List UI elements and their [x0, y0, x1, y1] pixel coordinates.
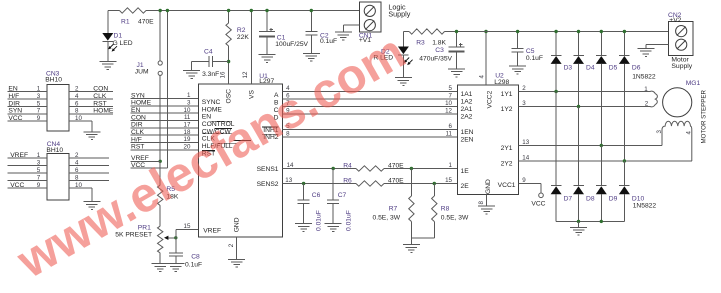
U2 pin name 2Y2	[501, 161, 513, 168]
wire D6 to output	[623, 64, 625, 161]
svg-text:D1: D1	[114, 33, 123, 40]
node output col D6	[623, 159, 626, 162]
svg-text:L298: L298	[494, 79, 509, 86]
svg-text:EN: EN	[131, 107, 140, 114]
svg-text:0.1uF: 0.1uF	[526, 55, 543, 62]
resistor R6	[343, 178, 404, 187]
wire C4 to ground	[192, 62, 210, 71]
svg-text:7: 7	[37, 108, 41, 115]
wire CN1 pin 2 to ground	[343, 25, 359, 32]
svg-text:+V2: +V2	[669, 17, 681, 24]
wire rail to C1	[265, 9, 268, 32]
U1 pin name INH2	[262, 134, 279, 141]
svg-text:0.5E, 3W: 0.5E, 3W	[373, 215, 401, 222]
ground below U1	[228, 259, 245, 267]
wire SENS2 left	[283, 177, 357, 184]
ground below D1	[99, 62, 116, 70]
svg-text:HOME: HOME	[131, 100, 152, 107]
diode D5	[596, 55, 618, 71]
svg-text:10: 10	[75, 115, 82, 122]
ground below diodes	[570, 227, 587, 235]
svg-text:2Y1: 2Y1	[501, 145, 513, 152]
wire OSC node to C4	[212, 61, 228, 63]
wire INH2 net	[283, 130, 458, 137]
wire U2 VCC1 to VCC	[519, 177, 542, 193]
svg-text:1: 1	[187, 92, 191, 99]
U2 VCC2 label	[487, 90, 494, 108]
wires input net stubs SYN HOME EN CON DIR CLK H/F RST	[131, 92, 199, 150]
svg-text:8: 8	[75, 108, 79, 115]
svg-text:EN: EN	[202, 114, 211, 121]
U2 pin name 1A2	[461, 99, 473, 106]
VCC label	[531, 200, 545, 207]
svg-text:11: 11	[184, 114, 191, 121]
U1 pin name VREF	[203, 228, 221, 235]
connector CN1 body	[359, 2, 381, 44]
wire C8 to ground	[175, 256, 177, 264]
ground below R7 R8	[403, 245, 420, 253]
svg-text:3: 3	[37, 93, 41, 100]
wire SENS1 left	[283, 162, 357, 169]
svg-text:D4: D4	[586, 64, 595, 71]
ground below C3	[448, 69, 465, 77]
svg-text:SYN: SYN	[131, 92, 145, 99]
wire C7 top	[332, 169, 334, 201]
diode D3	[551, 55, 573, 71]
label 1N5822 bottom	[633, 203, 657, 210]
wire SENS1 right	[384, 162, 458, 169]
svg-text:CON: CON	[131, 114, 146, 121]
U2 pin name 2E	[461, 183, 470, 190]
wire D2 cathode	[402, 55, 404, 77]
svg-text:R7: R7	[389, 206, 398, 213]
svg-text:D10: D10	[632, 195, 645, 202]
diode D10	[619, 186, 645, 203]
diode D9	[596, 186, 618, 203]
svg-text:2: 2	[228, 243, 235, 247]
svg-text:16: 16	[220, 71, 227, 78]
svg-text:R4: R4	[343, 163, 352, 170]
svg-text:VS: VS	[249, 90, 256, 99]
U2 pin name 1Y2	[501, 106, 513, 113]
svg-text:Supply: Supply	[671, 63, 692, 70]
wire C7 bottom	[332, 203, 334, 223]
diode D7	[551, 186, 573, 203]
label MOTOR STEPPER	[701, 89, 708, 143]
wire D7 to bottom rail	[555, 194, 557, 221]
svg-text:10: 10	[445, 100, 452, 107]
svg-text:5: 5	[449, 85, 453, 92]
svg-text:D3: D3	[564, 64, 573, 71]
wire INH1 net	[283, 123, 458, 130]
svg-text:H/F: H/F	[131, 136, 142, 143]
U2 pin name VCC1	[498, 182, 516, 189]
capacitor C4	[202, 48, 219, 77]
svg-text:SYNC: SYNC	[202, 99, 221, 106]
svg-text:C5: C5	[526, 48, 535, 55]
U2 pin name 2EN	[461, 137, 474, 144]
wire D2 anode	[402, 32, 404, 47]
diode D4	[573, 55, 595, 71]
svg-text:17: 17	[184, 122, 191, 129]
wire VCC logic rail	[108, 10, 360, 12]
diode D6	[619, 55, 641, 71]
resistor R8	[432, 196, 469, 222]
svg-text:1N5822: 1N5822	[632, 73, 656, 80]
ground below C8	[167, 264, 184, 272]
svg-text:1Y2: 1Y2	[501, 106, 513, 113]
resistor R4	[343, 163, 404, 172]
U1 pin name B	[274, 100, 279, 107]
svg-text:470E: 470E	[138, 19, 154, 26]
svg-text:C3: C3	[435, 47, 444, 54]
svg-text:C8: C8	[191, 254, 200, 261]
U1 pin name SENS1	[257, 166, 279, 173]
svg-text:0.1uF: 0.1uF	[320, 38, 337, 45]
wire output to D9	[600, 146, 602, 186]
ground below C6	[295, 224, 312, 232]
capacitor C8	[169, 253, 202, 269]
svg-text:CLK: CLK	[93, 93, 107, 100]
wire C3 bottom	[456, 52, 458, 69]
svg-text:DIR: DIR	[131, 122, 143, 129]
svg-text:VREF: VREF	[10, 152, 28, 159]
svg-text:3: 3	[187, 100, 191, 107]
svg-text:EN: EN	[8, 86, 17, 93]
U1 VS label	[249, 90, 256, 99]
svg-text:2: 2	[75, 152, 79, 159]
ground below C5	[509, 66, 526, 74]
U1 pin name D	[274, 115, 279, 122]
wire D3 to output	[555, 64, 557, 92]
U2 pin name 1A1	[461, 91, 473, 98]
wire U2 GND pin 8	[478, 194, 487, 206]
svg-text:R6: R6	[343, 178, 352, 185]
resistor R5	[158, 185, 179, 206]
U1 GND label	[234, 217, 241, 232]
svg-text:8: 8	[75, 175, 79, 182]
svg-text:15: 15	[445, 177, 452, 184]
inductor motor winding A	[644, 86, 657, 108]
resistor R1	[120, 8, 155, 26]
svg-text:VCC2: VCC2	[487, 90, 494, 108]
ground below CN3 pin 10	[83, 132, 100, 140]
svg-text:R2: R2	[237, 27, 246, 34]
capacitor C5	[512, 48, 543, 62]
wire J1 to VREF node	[159, 75, 161, 161]
wire 2Y1 to motor	[519, 139, 663, 146]
svg-text:13: 13	[285, 177, 292, 184]
svg-text:G LED: G LED	[113, 40, 133, 47]
wire join to ground	[410, 238, 412, 244]
svg-text:VREF: VREF	[203, 228, 221, 235]
wire wiper to C8	[175, 238, 177, 253]
svg-text:14: 14	[522, 155, 529, 162]
svg-text:1E: 1E	[461, 168, 470, 175]
wire D1 anode	[107, 11, 109, 34]
wire C6 bottom	[303, 203, 305, 223]
ground below C7	[325, 224, 342, 232]
svg-text:CON: CON	[93, 86, 108, 93]
wires CN4 left pins	[7, 152, 46, 189]
U1 pin name A	[274, 92, 279, 99]
svg-text:2Y2: 2Y2	[501, 161, 513, 168]
wire D8 to bottom rail	[578, 194, 580, 221]
label 1N5822 top	[632, 73, 656, 80]
ground below U2	[478, 206, 495, 214]
svg-text:RST: RST	[93, 100, 106, 107]
ground below CN4 pin 10	[83, 202, 100, 210]
svg-text:3: 3	[522, 100, 526, 107]
wire rail to VCC net	[166, 9, 169, 168]
wire D4 to output	[578, 64, 580, 107]
ground below C4	[183, 71, 200, 79]
svg-text:0.1uF: 0.1uF	[185, 262, 202, 269]
wire U1 OSC pin 16	[220, 62, 229, 85]
svg-text:C6: C6	[312, 192, 321, 199]
node VCC2 rail tap	[484, 30, 487, 33]
motor MG1 body	[663, 80, 701, 117]
ground below PR1	[152, 264, 169, 272]
svg-text:VCC1: VCC1	[498, 182, 516, 189]
node SENS1 R7 tap	[410, 167, 413, 170]
svg-text:1: 1	[449, 162, 453, 169]
svg-text:BH10: BH10	[46, 147, 63, 154]
svg-text:DIR: DIR	[8, 100, 20, 107]
svg-text:1A1: 1A1	[461, 91, 473, 98]
svg-text:D9: D9	[609, 195, 618, 202]
svg-text:D6: D6	[632, 64, 641, 71]
svg-text:0.01uF: 0.01uF	[346, 210, 353, 231]
svg-text:BH10: BH10	[45, 77, 62, 84]
connector CN4 body	[46, 141, 68, 200]
node VREF junction	[159, 160, 162, 163]
wire phase D	[283, 108, 458, 115]
svg-text:SYN: SYN	[8, 108, 22, 115]
svg-text:Supply: Supply	[388, 10, 410, 19]
jumper J1	[135, 61, 162, 76]
label Logic Supply	[388, 2, 410, 18]
svg-text:1Y1: 1Y1	[501, 91, 513, 98]
wire net VREF stub	[131, 155, 161, 162]
svg-text:D8: D8	[586, 195, 595, 202]
svg-text:2E: 2E	[461, 183, 470, 190]
wires CN3 left pins	[7, 86, 46, 123]
svg-text:15: 15	[184, 223, 191, 230]
svg-text:HOME: HOME	[93, 108, 114, 115]
resistor R7	[373, 196, 415, 222]
ground below C2	[303, 53, 320, 61]
svg-text:470uF/35V: 470uF/35V	[419, 56, 452, 63]
svg-text:3: 3	[656, 130, 663, 134]
U2 pin name 2A1	[461, 106, 473, 113]
wire SENS2 right	[384, 177, 458, 184]
node SENS1 C7 tap	[332, 167, 335, 170]
ground below CN1	[335, 32, 352, 40]
svg-text:9: 9	[522, 177, 526, 184]
node output col D5	[600, 144, 603, 147]
svg-text:1: 1	[37, 86, 41, 93]
svg-text:13: 13	[522, 139, 529, 146]
svg-text:VCC: VCC	[531, 200, 545, 207]
svg-text:2A1: 2A1	[461, 106, 473, 113]
wire rail to R2	[227, 9, 230, 23]
node PR1 wiper	[174, 236, 177, 239]
watermark	[8, 25, 415, 289]
svg-text:SENS1: SENS1	[257, 166, 279, 173]
svg-text:GND: GND	[234, 217, 241, 232]
svg-text:0.01uF: 0.01uF	[316, 210, 323, 231]
svg-text:GND: GND	[485, 179, 492, 194]
capacitor C2	[305, 31, 337, 44]
svg-text:4: 4	[686, 131, 693, 135]
ground below C1	[259, 55, 276, 63]
U1 pin name INH1	[262, 127, 279, 134]
svg-text:2EN: 2EN	[461, 137, 474, 144]
svg-text:1A2: 1A2	[461, 99, 473, 106]
wire output to D8	[578, 107, 580, 186]
wire R7 R8 join	[411, 222, 434, 239]
wire 1Y2 to motor	[519, 100, 645, 107]
U2 pin name 1E	[461, 168, 470, 175]
U2 GND label	[485, 179, 492, 194]
svg-text:1N5822: 1N5822	[633, 203, 657, 210]
svg-text:MG1: MG1	[686, 80, 701, 87]
wire phase B	[283, 93, 458, 100]
diode D8	[573, 186, 595, 203]
ground below CN2	[637, 48, 654, 56]
svg-text:0.5E, 3W: 0.5E, 3W	[441, 215, 469, 222]
svg-text:5: 5	[37, 100, 41, 107]
svg-text:1: 1	[37, 152, 41, 159]
svg-text:2A2: 2A2	[461, 114, 473, 121]
label Motor Supply	[671, 57, 692, 70]
wire wiper to U1 pin 15	[176, 230, 199, 238]
node output col D4	[577, 105, 580, 108]
svg-text:R1: R1	[121, 19, 130, 26]
svg-text:C7: C7	[338, 192, 347, 199]
svg-text:VCC: VCC	[10, 182, 24, 189]
svg-text:6: 6	[449, 123, 453, 130]
node VCC terminal	[539, 193, 544, 198]
wire C2 to ground	[310, 35, 312, 54]
LED D2	[373, 47, 412, 66]
wire rail to C2	[310, 9, 313, 32]
svg-text:HOME: HOME	[202, 107, 223, 114]
wire +V2 rail	[403, 31, 668, 33]
U2 pin name 2Y1	[501, 145, 513, 152]
wires CN4 right pins	[69, 152, 109, 182]
U1 pin name C	[274, 107, 279, 114]
wire C1 to ground	[266, 37, 268, 55]
wire D10 to bottom rail	[623, 194, 625, 221]
op U1 body	[199, 73, 283, 237]
svg-text:11: 11	[446, 130, 453, 137]
svg-text:D5: D5	[609, 64, 618, 71]
wire phase C	[283, 100, 458, 107]
wire 1Y1 to motor	[519, 85, 645, 92]
svg-text:R8: R8	[441, 206, 450, 213]
svg-text:9: 9	[37, 115, 41, 122]
wire VREF node to R5	[159, 161, 161, 185]
svg-text:4: 4	[75, 160, 79, 167]
connector CN2 body	[668, 12, 693, 55]
wire diode bottom rail	[556, 220, 624, 223]
wire U1 GND pin 2	[228, 237, 237, 259]
wire rail to D5	[600, 30, 603, 56]
node SENS2 C6 tap	[302, 182, 305, 185]
svg-text:MOTOR STEPPER: MOTOR STEPPER	[701, 89, 708, 143]
wire R5 to PR1	[159, 206, 161, 227]
svg-text:2: 2	[522, 85, 526, 92]
ground below D2	[395, 78, 412, 86]
svg-text:SENS2: SENS2	[257, 181, 279, 188]
svg-text:3: 3	[37, 160, 41, 167]
op U2 body	[458, 72, 519, 194]
wire rail to D3	[554, 30, 557, 56]
svg-text:7: 7	[37, 175, 41, 182]
node output col D3	[554, 90, 557, 93]
wire R7 top	[410, 169, 412, 197]
U1 pin 15 number	[184, 223, 191, 230]
svg-text:CLK: CLK	[131, 129, 145, 136]
svg-text:C4: C4	[204, 48, 213, 55]
U1 left pin names	[184, 92, 252, 157]
LED D1	[102, 33, 132, 52]
svg-text:10: 10	[184, 107, 191, 114]
svg-text:12: 12	[445, 108, 452, 115]
wire net VCC stub	[131, 162, 168, 169]
svg-text:OSC: OSC	[226, 89, 233, 104]
svg-text:JUM: JUM	[135, 69, 149, 76]
wire R8 top	[433, 184, 435, 197]
U1 OSC label	[226, 89, 233, 104]
svg-text:10: 10	[75, 182, 82, 189]
wire rail to D6	[623, 30, 626, 56]
capacitor C7	[327, 192, 352, 231]
wire 2Y2 to motor	[519, 155, 692, 162]
svg-text:H/F: H/F	[8, 93, 19, 100]
svg-text:18: 18	[184, 129, 191, 136]
svg-text:9: 9	[37, 182, 41, 189]
wire CN2 pin 2 to ground	[646, 45, 669, 49]
svg-text:7: 7	[449, 93, 453, 100]
svg-text:RST: RST	[131, 144, 144, 151]
capacitor C6	[298, 192, 323, 231]
wire U2 VCC2 pin 4	[479, 32, 487, 86]
svg-text:3.3nF: 3.3nF	[202, 71, 219, 78]
svg-text:5: 5	[37, 167, 41, 174]
svg-text:1.8K: 1.8K	[432, 40, 446, 47]
svg-text:4: 4	[75, 93, 79, 100]
potentiometer PR1	[115, 225, 176, 254]
U2 pin name 2A2	[461, 114, 473, 121]
wire C5 top	[516, 30, 519, 49]
resistor R2	[226, 23, 249, 46]
resistor R3	[409, 29, 446, 47]
svg-text:L297: L297	[259, 78, 274, 85]
svg-text:22K: 22K	[237, 34, 249, 41]
svg-text:1EN: 1EN	[461, 129, 474, 136]
svg-text:2: 2	[75, 86, 79, 93]
node SENS2 R8 tap	[433, 182, 436, 185]
wire C5 bottom	[517, 52, 519, 66]
svg-text:VCC: VCC	[8, 115, 22, 122]
wire bottom rail to ground	[578, 221, 580, 227]
wire rail to D4	[577, 30, 580, 56]
connector CN3 body	[45, 70, 69, 131]
wire D5 to output	[600, 64, 602, 146]
